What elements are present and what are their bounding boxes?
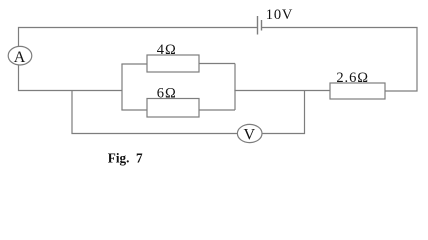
svg-text:Fig. 7: Fig. 7 (108, 150, 143, 165)
wire: left node bracket vertical (121, 64, 123, 110)
wire: voltmeter branch left (drop from bottom wire, across to voltmeter) (72, 91, 238, 134)
resistor 4 ohm (147, 55, 199, 72)
svg-text:2.6Ω: 2.6Ω (336, 70, 369, 86)
wire: ammeter bottom down and right to parallel network left node (19, 65, 123, 91)
svg-text:4Ω: 4Ω (157, 42, 177, 58)
resistor 2.6 ohm (330, 83, 385, 99)
wire: 4 ohm to right node bracket (199, 63, 235, 65)
ammeter A (8, 46, 32, 65)
svg-text:10V: 10V (266, 7, 293, 23)
wire: right node to resistor 2.6 ohm (234, 90, 330, 92)
wire: battery right to top-right corner, down and left to resistor 2.6 ohm (262, 28, 418, 92)
wire: 6 ohm to right node bracket (199, 109, 235, 111)
wire: voltmeter branch right (across and up to main wire) (262, 91, 305, 134)
resistor 6 ohm (147, 99, 199, 118)
svg-text:6Ω: 6Ω (157, 86, 177, 102)
wire: stub left node to 4 ohm (121, 63, 147, 65)
voltmeter V (237, 124, 262, 143)
wire: right node bracket vertical (234, 64, 236, 111)
svg-text:A: A (14, 49, 26, 66)
svg-text:V: V (244, 127, 256, 144)
battery 10V long plate (257, 16, 259, 35)
wire: top-left from ammeter top up and right to battery (19, 28, 258, 47)
wire: stub left node to 6 ohm (121, 109, 147, 111)
battery 10V short plate (261, 20, 263, 31)
